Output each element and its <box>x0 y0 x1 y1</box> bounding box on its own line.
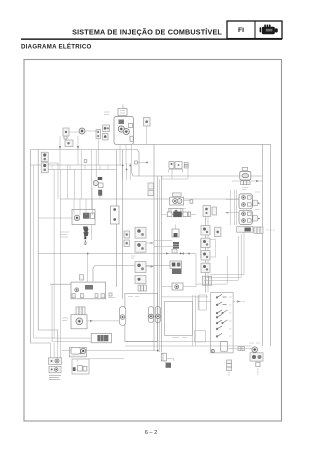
bottom right vertical comp <box>227 360 232 377</box>
relay box upper <box>239 194 252 209</box>
wire left vertical x33.5 <box>34 165 55 338</box>
wire center bundle x154 <box>153 144 155 350</box>
bottom-left wire bundle <box>50 343 60 358</box>
wire cluster link <box>69 131 99 132</box>
sensor 4 with circle <box>172 283 183 290</box>
wire bus y176 <box>132 166 263 176</box>
connector R1 <box>201 226 210 235</box>
tiny component right of junctions <box>135 161 148 164</box>
wire relay out right <box>184 200 190 202</box>
connector R3 <box>201 251 210 260</box>
relay pair boxes (x169-182) <box>169 162 183 173</box>
FI tab divider <box>254 21 256 39</box>
handlebar switch box <box>211 293 233 353</box>
wire verticals x67.7 <box>67 165 69 199</box>
connector + dashes right mid <box>254 227 276 233</box>
small box far right of R1 <box>215 227 221 236</box>
wire bus y199 <box>60 198 239 200</box>
wire verticals x122.5 <box>122 150 124 299</box>
meter assembly box <box>125 293 161 341</box>
sensor 2 striped <box>172 242 179 253</box>
wire arrow drop left 1 <box>59 136 61 165</box>
arrows from left column <box>146 242 154 268</box>
fuse striped box under battery <box>241 181 250 185</box>
small box right of ECU area <box>199 295 207 310</box>
connector below <box>124 240 130 247</box>
striped tall box right mid <box>202 276 211 285</box>
tiny label near bottom-right connectors <box>249 342 260 344</box>
wire bus y265.5 <box>93 266 170 285</box>
wire battery left <box>232 180 240 182</box>
striped box right of pump <box>91 333 111 342</box>
wires into relay boxes <box>226 190 240 225</box>
main switch left connector B <box>103 133 108 140</box>
legend text lines <box>49 375 61 379</box>
wire right bus x262.5 <box>262 144 264 346</box>
connector pair on center bundle <box>148 183 154 196</box>
wire relay drop <box>171 168 173 179</box>
sensor 3 <box>170 261 182 274</box>
small out connector lower <box>253 216 261 221</box>
small box right of main switch <box>144 118 151 145</box>
wire left vertical x30.5 <box>31 150 51 344</box>
wire coil drops <box>74 199 93 215</box>
connector pair bottom-left mid <box>69 348 86 357</box>
wire bottom drop x60.6 <box>60 329 62 343</box>
connector below <box>65 140 73 147</box>
label mark near switch <box>104 112 110 115</box>
connector stack lower <box>41 163 48 173</box>
engine icon <box>260 25 278 35</box>
injector row <box>162 212 197 218</box>
label marks near coil <box>60 232 69 237</box>
ECU empty box <box>164 302 192 336</box>
terminal square <box>190 200 193 203</box>
FI tab box <box>227 21 282 39</box>
fuel pump P1 <box>71 315 87 329</box>
bottom buses y341.6 y346 <box>125 342 252 346</box>
wire bus y284 <box>50 283 71 285</box>
wire verticals x91.7 <box>91 150 93 240</box>
wires into handlebar box <box>162 297 246 303</box>
tiny pin-number marks: injector row <box>168 208 186 210</box>
wire bus y169.5 <box>48 169 117 171</box>
relay box lower <box>239 210 252 224</box>
sidestand relay box right of coil <box>111 206 120 224</box>
wire x87.7 drop <box>87 254 89 283</box>
left indicator capsule on meter edge <box>119 307 126 326</box>
ring switch symbol <box>79 128 85 134</box>
sensor 1 <box>172 225 179 238</box>
dark ring connector <box>252 347 258 353</box>
small box + dashes below <box>256 362 260 375</box>
wire pump right with arrow <box>87 320 126 322</box>
ignition coil box <box>72 209 95 224</box>
connector pair w circles <box>250 353 263 361</box>
wire top bus y146 <box>133 144 271 346</box>
bus band ticks <box>52 165 108 170</box>
connector near ring <box>63 128 69 136</box>
connector R0 top <box>203 206 217 217</box>
wires y338 y341 <box>52 284 91 341</box>
TPS cluster box <box>71 282 106 299</box>
small label cluster left of meter <box>108 293 116 298</box>
tiny gray square <box>79 275 83 280</box>
wire bus y149.5 left <box>31 150 140 177</box>
fuse box under switch <box>130 136 133 141</box>
junction row dots under switch <box>122 163 131 180</box>
wire bus y253.5 <box>38 253 196 255</box>
fuel pump relay R1 <box>170 197 184 205</box>
wire battery to bus <box>251 180 263 182</box>
bottom center sensor lower <box>165 361 171 368</box>
striped small box <box>76 307 85 316</box>
label marks near pump <box>62 318 68 321</box>
bottom connector stack box2 <box>49 366 61 373</box>
wire switch bottom drop 1 <box>119 144 121 165</box>
wires handlebar top loop <box>195 254 197 287</box>
light outline box around R3 <box>201 240 216 258</box>
junction dot <box>87 253 89 255</box>
connector stack upper <box>41 152 48 162</box>
diagram outer frame <box>24 60 282 422</box>
wire verticals x96 <box>95 150 97 177</box>
small out connectors right <box>253 200 261 205</box>
connector L2 <box>135 241 146 252</box>
tiny pin marks handlebar box <box>229 297 232 336</box>
tiny label near meter top <box>128 296 139 298</box>
connector L4 <box>135 276 146 284</box>
rounded comp with ring (bottom mid-left) <box>62 348 159 355</box>
striped connector right <box>184 163 188 169</box>
tiny label near R-relays <box>255 192 260 210</box>
staircase wires right-center <box>196 232 244 284</box>
connector L3 <box>135 262 146 273</box>
main switch left connector A <box>103 125 110 132</box>
wire from stack right <box>48 163 58 199</box>
small box bottom right of ECU <box>194 331 205 342</box>
striped box atop meter <box>138 285 147 291</box>
connector R4 <box>201 263 210 272</box>
wires right of ECU: verticals <box>193 295 199 346</box>
bottom connector stack box1 <box>48 358 61 365</box>
wire center bundle x161.5 <box>161 176 163 352</box>
tiny label near L-column <box>131 256 135 258</box>
relay 2 below <box>169 209 183 215</box>
tiny label mark top-left <box>64 136 67 139</box>
header rule <box>21 38 282 40</box>
wire long vertical x60.6 <box>60 170 62 330</box>
wire long vertical x54.1 <box>53 170 55 339</box>
svg-text:DIAGRAMA ELÉTRICO: DIAGRAMA ELÉTRICO <box>21 43 92 51</box>
wire switch left drop <box>98 139 100 166</box>
relay label blob <box>172 193 181 197</box>
fuse label <box>242 168 247 171</box>
wire verticals x74.5 <box>74 170 76 200</box>
bottom center sensor <box>161 353 173 361</box>
main switch U1 body <box>114 117 134 145</box>
bottom box with squares <box>72 359 124 374</box>
stop switch cluster <box>92 177 103 199</box>
wire right bundle x208 <box>207 210 209 293</box>
wire main switch stem <box>122 105 124 109</box>
wire under relays <box>162 168 188 179</box>
bottom striped connector of battery col <box>237 227 253 233</box>
wire verticals x116.5 <box>116 150 118 287</box>
wire arrow drop left 2 <box>77 136 79 165</box>
wire switch bottom drop 2 <box>125 144 127 165</box>
wire switch bottom drop 3 <box>131 144 133 166</box>
wire center bundle x157.5 <box>157 176 159 352</box>
connectors left edge x124-130 <box>124 231 130 238</box>
connector R2 <box>201 238 210 247</box>
wire left vertical x38.2 <box>38 150 58 344</box>
wire coil input y218 <box>38 217 72 219</box>
small connector left of switch <box>96 130 101 139</box>
tiny label below battery <box>242 188 248 190</box>
wires sensors to left bundle <box>154 241 196 287</box>
wire verticals x81 <box>80 150 82 199</box>
tiny junction box <box>84 160 87 163</box>
connector label box above main switch <box>118 109 127 116</box>
wire center bundle x159.5 <box>159 179 161 352</box>
svg-text:FI: FI <box>238 27 244 34</box>
wire right bundle x205.5 <box>205 210 207 293</box>
svg-text:6 – 2: 6 – 2 <box>145 430 157 436</box>
svg-text:SISTEMA DE INJEÇÃO DE COMBUSTÍ: SISTEMA DE INJEÇÃO DE COMBUSTÍVEL <box>72 27 222 36</box>
small connectors on wire <box>227 347 251 351</box>
connector L1 <box>135 227 146 238</box>
tiny label near ECU bottom <box>172 337 187 339</box>
arrows on bus <box>166 252 190 254</box>
wire bus y165 <box>31 164 123 166</box>
battery B1 <box>240 171 251 180</box>
spark plug <box>83 227 89 245</box>
